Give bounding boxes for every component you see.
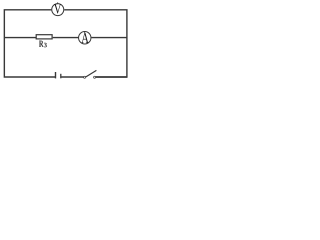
switch pivot terminal circle — [84, 76, 86, 78]
wire middle-left segment — [4, 37, 36, 39]
wire switch-to-right segment — [96, 76, 127, 78]
resistor label subscript 3 — [44, 43, 47, 48]
battery long plate — [55, 72, 57, 78]
ammeter needle tick — [84, 31, 86, 33]
wire resistor-to-ammeter segment — [53, 37, 79, 39]
ammeter A circle — [79, 32, 91, 44]
resistor R3 body — [36, 35, 52, 39]
voltmeter needle tick — [57, 2, 59, 4]
voltmeter letter V — [54, 4, 61, 14]
switch right terminal circle — [94, 76, 96, 78]
voltmeter V circle — [52, 4, 64, 16]
wire left loop: top-left, left vertical, bottom-left — [4, 10, 55, 77]
ammeter letter A — [81, 33, 89, 43]
battery short plate — [60, 74, 62, 79]
wire battery-to-switch segment — [61, 76, 83, 78]
resistor label R — [39, 41, 44, 47]
switch lever arm — [86, 70, 97, 77]
wire middle-right segment — [91, 37, 127, 39]
wire right loop: top-right, right vertical, bottom-right — [64, 10, 127, 77]
